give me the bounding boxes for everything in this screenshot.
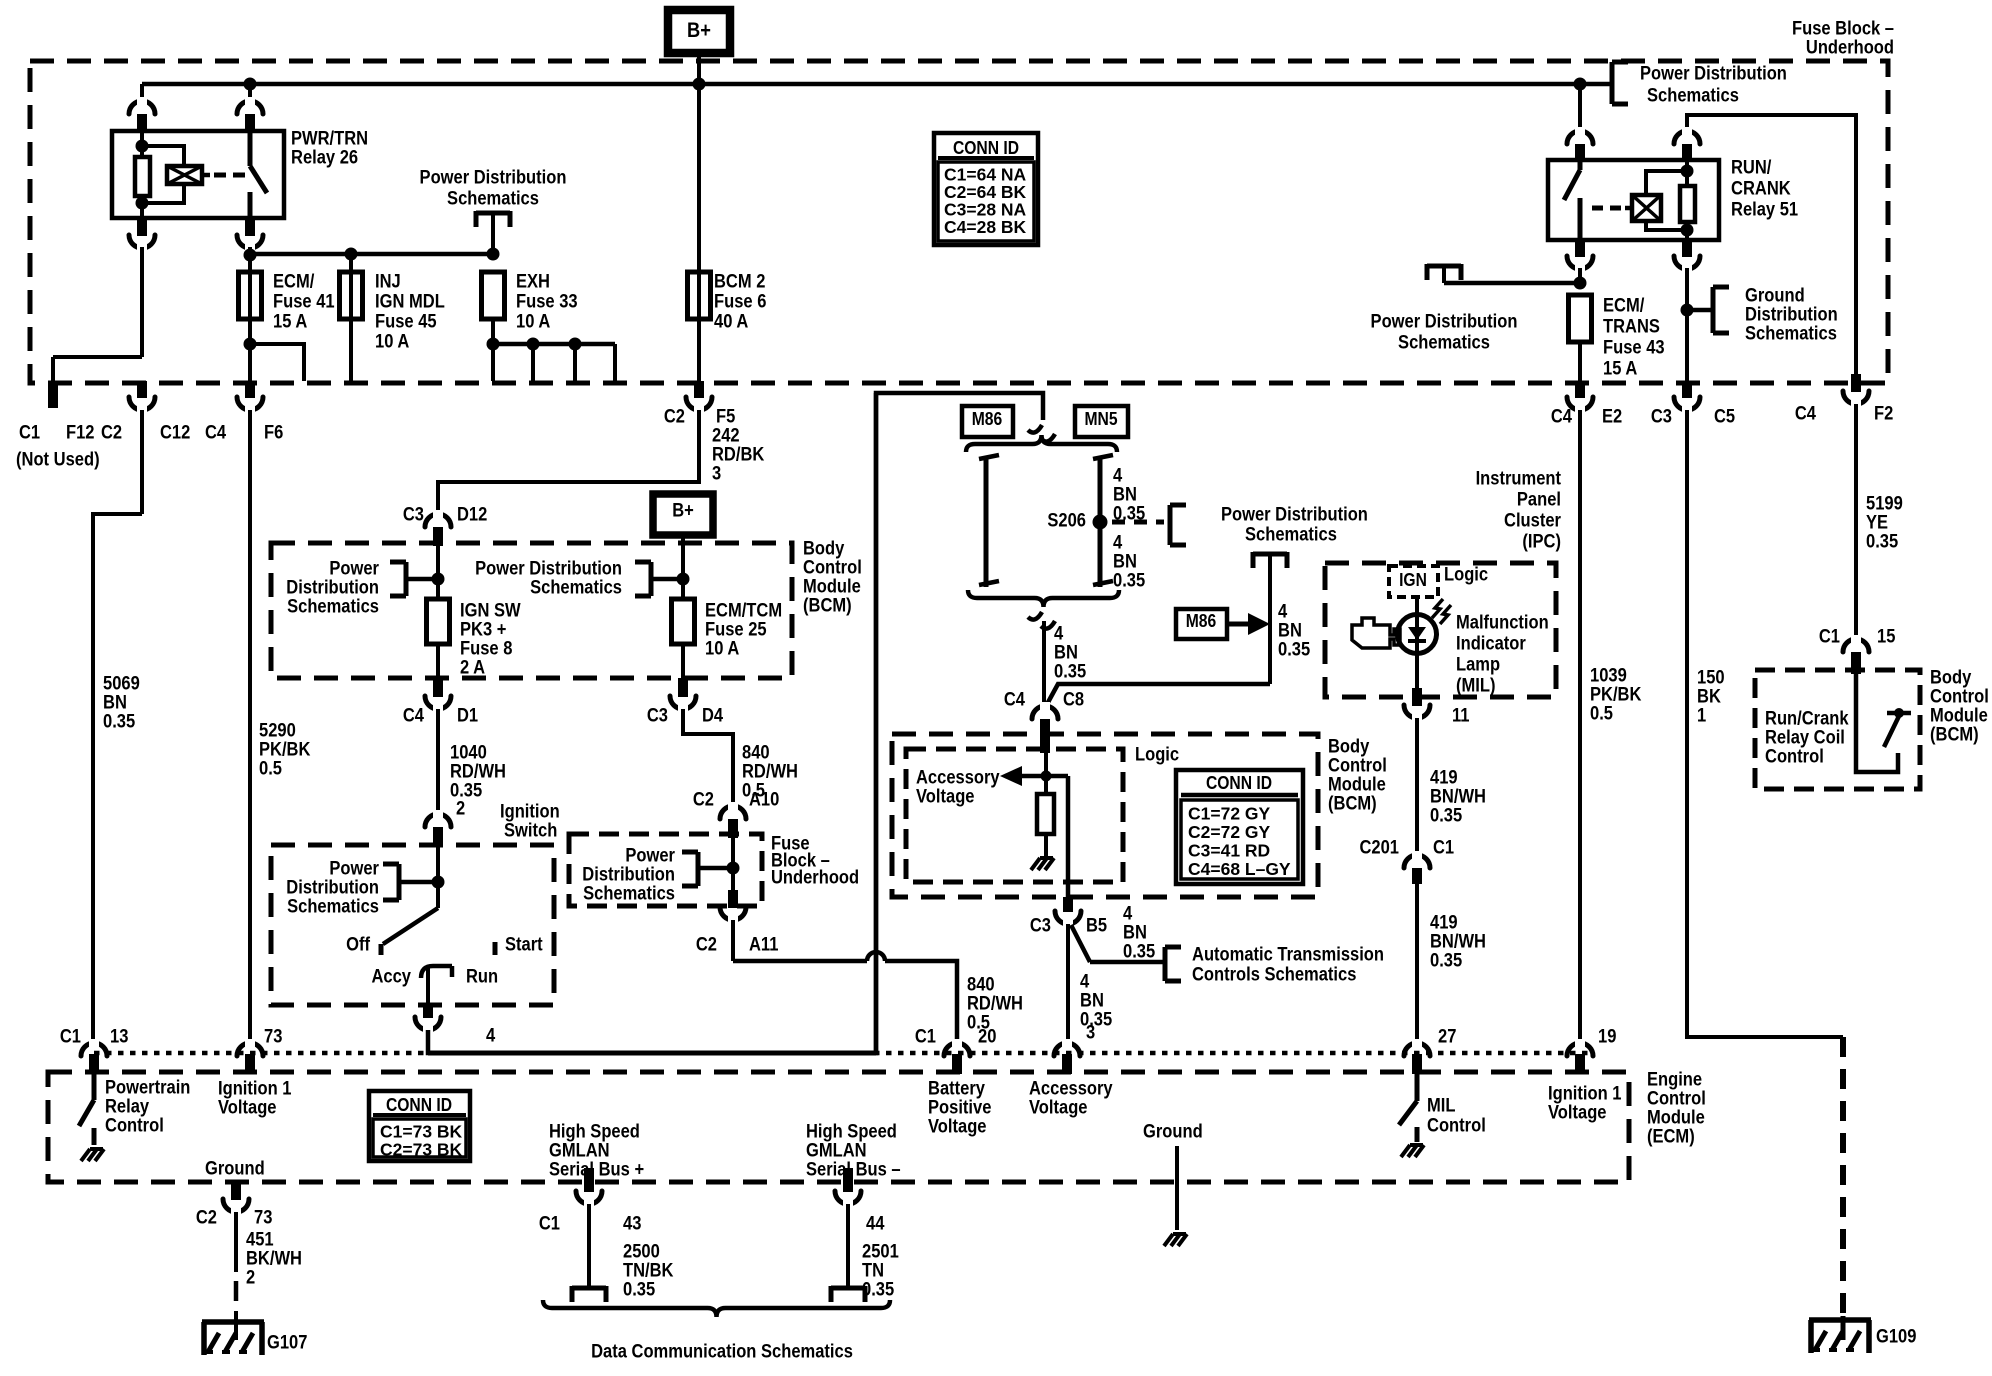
svg-text:Control: Control xyxy=(1647,1089,1706,1110)
svg-text:BK/WH: BK/WH xyxy=(246,1249,302,1270)
svg-text:ECM/: ECM/ xyxy=(273,272,315,293)
svg-text:73: 73 xyxy=(264,1027,282,1048)
svg-text:2 A: 2 A xyxy=(460,658,485,679)
svg-text:IGN SW: IGN SW xyxy=(460,601,521,622)
svg-text:IGN: IGN xyxy=(1399,570,1427,590)
svg-text:C4: C4 xyxy=(1004,690,1025,711)
svg-text:Schematics: Schematics xyxy=(287,897,379,918)
svg-text:Instrument: Instrument xyxy=(1476,469,1562,490)
svg-text:4: 4 xyxy=(1278,602,1288,623)
svg-text:E2: E2 xyxy=(1602,407,1622,428)
svg-text:Relay 51: Relay 51 xyxy=(1731,200,1798,221)
svg-text:840: 840 xyxy=(742,743,770,764)
svg-text:M86: M86 xyxy=(1186,611,1217,631)
svg-text:73: 73 xyxy=(254,1208,272,1229)
svg-text:Panel: Panel xyxy=(1517,490,1561,511)
svg-text:BK: BK xyxy=(1697,687,1721,708)
svg-text:F2: F2 xyxy=(1874,404,1893,425)
svg-text:0.35: 0.35 xyxy=(623,1280,656,1301)
svg-text:4: 4 xyxy=(486,1026,496,1047)
svg-text:5290: 5290 xyxy=(259,721,296,742)
svg-text:0.35: 0.35 xyxy=(1430,806,1463,827)
svg-text:BN: BN xyxy=(1278,621,1302,642)
svg-text:Fuse 8: Fuse 8 xyxy=(460,639,512,660)
svg-text:F5: F5 xyxy=(716,407,736,428)
svg-text:C2=73 BK: C2=73 BK xyxy=(380,1140,463,1160)
svg-text:C1=73 BK: C1=73 BK xyxy=(380,1122,463,1142)
svg-text:BN/WH: BN/WH xyxy=(1430,932,1486,953)
svg-text:D12: D12 xyxy=(457,505,487,526)
svg-text:INJ: INJ xyxy=(375,272,401,293)
svg-text:150: 150 xyxy=(1697,668,1725,689)
svg-text:Body: Body xyxy=(803,539,845,560)
svg-text:Lamp: Lamp xyxy=(1456,655,1500,676)
svg-text:IGN MDL: IGN MDL xyxy=(375,292,445,313)
svg-text:C1=72 GY: C1=72 GY xyxy=(1188,804,1271,824)
svg-text:Distribution: Distribution xyxy=(286,578,379,599)
svg-text:27: 27 xyxy=(1438,1027,1456,1048)
svg-text:Powertrain: Powertrain xyxy=(105,1078,190,1099)
svg-text:Ignition: Ignition xyxy=(500,802,560,823)
svg-text:B5: B5 xyxy=(1086,916,1107,937)
svg-text:Indicator: Indicator xyxy=(1456,634,1526,655)
svg-text:Off: Off xyxy=(346,935,370,956)
svg-text:Schematics: Schematics xyxy=(530,578,622,599)
svg-text:C2=72 GY: C2=72 GY xyxy=(1188,822,1271,842)
svg-text:11: 11 xyxy=(1452,706,1470,727)
svg-text:Power Distribution: Power Distribution xyxy=(475,559,622,580)
svg-text:Serial Bus +: Serial Bus + xyxy=(549,1160,644,1181)
svg-text:Power Distribution: Power Distribution xyxy=(1640,64,1787,85)
svg-text:1040: 1040 xyxy=(450,743,487,764)
svg-text:Switch: Switch xyxy=(504,821,557,842)
svg-text:Controls Schematics: Controls Schematics xyxy=(1192,965,1356,986)
svg-text:0.35: 0.35 xyxy=(1123,942,1156,963)
svg-text:Module: Module xyxy=(1930,706,1988,727)
svg-text:13: 13 xyxy=(110,1027,128,1048)
svg-text:1: 1 xyxy=(1697,706,1707,727)
svg-text:242: 242 xyxy=(712,426,740,447)
svg-text:BN: BN xyxy=(103,693,127,714)
svg-text:Schematics: Schematics xyxy=(583,884,675,905)
svg-text:0.5: 0.5 xyxy=(259,759,282,780)
svg-text:3: 3 xyxy=(712,464,721,485)
svg-text:C2: C2 xyxy=(664,407,685,428)
svg-text:Positive: Positive xyxy=(928,1098,991,1119)
svg-text:C12: C12 xyxy=(160,423,190,444)
svg-text:Engine: Engine xyxy=(1647,1070,1702,1091)
svg-text:20: 20 xyxy=(978,1027,996,1048)
svg-text:Ground: Ground xyxy=(205,1159,265,1180)
svg-text:Automatic Transmission: Automatic Transmission xyxy=(1192,945,1384,966)
svg-text:Relay 26: Relay 26 xyxy=(291,148,358,169)
svg-text:RD/BK: RD/BK xyxy=(712,445,765,466)
svg-text:F12: F12 xyxy=(66,423,95,444)
svg-text:Cluster: Cluster xyxy=(1504,511,1562,532)
svg-text:GMLAN: GMLAN xyxy=(806,1141,867,1162)
svg-text:C2: C2 xyxy=(101,423,122,444)
svg-text:CONN ID: CONN ID xyxy=(953,138,1019,158)
svg-text:Relay Coil: Relay Coil xyxy=(1765,728,1845,749)
svg-text:C3: C3 xyxy=(403,505,424,526)
svg-text:TN: TN xyxy=(862,1261,884,1282)
svg-text:RD/WH: RD/WH xyxy=(742,762,798,783)
svg-text:C1: C1 xyxy=(1433,838,1454,859)
svg-text:RD/WH: RD/WH xyxy=(450,762,506,783)
svg-text:Fuse 25: Fuse 25 xyxy=(705,620,767,641)
svg-text:(BCM): (BCM) xyxy=(803,596,852,617)
svg-text:Run: Run xyxy=(466,967,498,988)
svg-text:RUN/: RUN/ xyxy=(1731,158,1772,179)
svg-text:Voltage: Voltage xyxy=(928,1117,987,1138)
svg-text:40 A: 40 A xyxy=(714,312,749,333)
svg-text:C2: C2 xyxy=(693,790,714,811)
svg-text:BCM 2: BCM 2 xyxy=(714,272,765,293)
svg-text:Ground: Ground xyxy=(1143,1122,1203,1143)
svg-text:S206: S206 xyxy=(1047,511,1086,532)
svg-text:CRANK: CRANK xyxy=(1731,179,1791,200)
svg-text:Module: Module xyxy=(803,577,861,598)
svg-text:Schematics: Schematics xyxy=(287,597,379,618)
svg-text:0.35: 0.35 xyxy=(862,1280,895,1301)
svg-text:Accy: Accy xyxy=(372,967,412,988)
svg-text:Module: Module xyxy=(1328,775,1386,796)
svg-text:4: 4 xyxy=(1123,904,1133,925)
svg-text:2501: 2501 xyxy=(862,1242,899,1263)
svg-text:PK3 +: PK3 + xyxy=(460,620,506,641)
svg-text:Schematics: Schematics xyxy=(1245,525,1337,546)
svg-text:PK/BK: PK/BK xyxy=(259,740,311,761)
svg-text:Underhood: Underhood xyxy=(1806,38,1894,59)
svg-text:Fuse 33: Fuse 33 xyxy=(516,292,578,313)
svg-text:Control: Control xyxy=(803,558,862,579)
svg-text:G107: G107 xyxy=(267,1333,307,1354)
svg-text:TN/BK: TN/BK xyxy=(623,1261,674,1282)
svg-text:Accessory: Accessory xyxy=(916,768,1000,789)
svg-text:Body: Body xyxy=(1930,668,1972,689)
svg-text:5199: 5199 xyxy=(1866,494,1903,515)
svg-text:1039: 1039 xyxy=(1590,666,1627,687)
svg-text:Body: Body xyxy=(1328,737,1370,758)
svg-text:A10: A10 xyxy=(749,790,779,811)
svg-text:Control: Control xyxy=(1427,1116,1486,1137)
svg-text:0.35: 0.35 xyxy=(1278,640,1311,661)
svg-text:High Speed: High Speed xyxy=(806,1122,897,1143)
svg-text:CONN ID: CONN ID xyxy=(1206,773,1272,793)
svg-text:C1: C1 xyxy=(539,1214,560,1235)
svg-text:Schematics: Schematics xyxy=(1745,324,1837,345)
svg-text:C3: C3 xyxy=(647,706,668,727)
svg-text:(MIL): (MIL) xyxy=(1456,676,1496,697)
svg-text:Module: Module xyxy=(1647,1108,1705,1129)
svg-text:Fuse 41: Fuse 41 xyxy=(273,292,335,313)
svg-text:0.35: 0.35 xyxy=(103,712,136,733)
svg-text:C2: C2 xyxy=(696,935,717,956)
svg-text:Underhood: Underhood xyxy=(771,868,859,889)
svg-text:C1: C1 xyxy=(1819,627,1840,648)
svg-text:C8: C8 xyxy=(1063,690,1084,711)
svg-text:Ground: Ground xyxy=(1745,286,1805,307)
svg-text:BN: BN xyxy=(1054,643,1078,664)
svg-text:Control: Control xyxy=(1930,687,1989,708)
svg-text:ECM/TCM: ECM/TCM xyxy=(705,601,782,622)
svg-text:(ECM): (ECM) xyxy=(1647,1127,1695,1148)
svg-text:C4=28 BK: C4=28 BK xyxy=(944,217,1027,237)
svg-text:C4: C4 xyxy=(1551,407,1572,428)
svg-text:BN/WH: BN/WH xyxy=(1430,787,1486,808)
svg-text:M86: M86 xyxy=(972,409,1003,429)
svg-text:B+: B+ xyxy=(672,501,694,522)
svg-text:19: 19 xyxy=(1598,1027,1616,1048)
svg-text:B+: B+ xyxy=(687,19,711,42)
svg-text:419: 419 xyxy=(1430,768,1458,789)
svg-text:10 A: 10 A xyxy=(705,639,740,660)
svg-text:44: 44 xyxy=(866,1214,885,1235)
svg-text:5069: 5069 xyxy=(103,674,140,695)
svg-text:4: 4 xyxy=(1054,624,1064,645)
svg-text:A11: A11 xyxy=(749,935,779,956)
svg-text:C1: C1 xyxy=(915,1027,936,1048)
svg-text:Control: Control xyxy=(1765,747,1824,768)
svg-text:Data Communication Schematics: Data Communication Schematics xyxy=(591,1342,853,1363)
svg-text:C4: C4 xyxy=(403,706,424,727)
svg-text:Malfunction: Malfunction xyxy=(1456,613,1549,634)
svg-text:Fuse 45: Fuse 45 xyxy=(375,312,437,333)
svg-text:Accessory: Accessory xyxy=(1029,1079,1113,1100)
svg-text:(Not Used): (Not Used) xyxy=(16,450,100,471)
svg-text:10 A: 10 A xyxy=(516,312,551,333)
svg-text:0.35: 0.35 xyxy=(1054,662,1087,683)
svg-text:419: 419 xyxy=(1430,913,1458,934)
svg-text:Control: Control xyxy=(1328,756,1387,777)
svg-text:GMLAN: GMLAN xyxy=(549,1141,610,1162)
svg-text:Ignition 1: Ignition 1 xyxy=(218,1079,292,1100)
svg-text:YE: YE xyxy=(1866,513,1888,534)
svg-text:C201: C201 xyxy=(1360,838,1400,859)
svg-text:Ignition 1: Ignition 1 xyxy=(1548,1084,1622,1105)
svg-text:C4=68 L–GY: C4=68 L–GY xyxy=(1188,859,1291,879)
svg-text:Voltage: Voltage xyxy=(218,1098,277,1119)
svg-text:CONN ID: CONN ID xyxy=(386,1095,452,1115)
svg-text:0.5: 0.5 xyxy=(1590,704,1613,725)
svg-text:MN5: MN5 xyxy=(1084,409,1117,429)
svg-text:C2: C2 xyxy=(196,1208,217,1229)
svg-text:BN: BN xyxy=(1113,552,1137,573)
svg-text:C3: C3 xyxy=(1030,916,1051,937)
svg-text:2: 2 xyxy=(456,799,465,820)
svg-text:Power: Power xyxy=(625,846,675,867)
svg-text:Distribution: Distribution xyxy=(582,865,675,886)
svg-text:0.35: 0.35 xyxy=(450,781,483,802)
svg-text:Power Distribution: Power Distribution xyxy=(1221,505,1368,526)
svg-text:Schematics: Schematics xyxy=(1398,333,1490,354)
svg-text:Power Distribution: Power Distribution xyxy=(420,168,567,189)
svg-text:PK/BK: PK/BK xyxy=(1590,685,1642,706)
svg-text:Start: Start xyxy=(505,935,543,956)
svg-text:High Speed: High Speed xyxy=(549,1122,640,1143)
svg-text:Control: Control xyxy=(105,1116,164,1137)
svg-text:4: 4 xyxy=(1113,533,1123,554)
svg-text:Power: Power xyxy=(329,559,379,580)
svg-text:ECM/: ECM/ xyxy=(1603,296,1645,317)
svg-text:F6: F6 xyxy=(264,423,283,444)
svg-text:3: 3 xyxy=(1086,1023,1095,1044)
svg-text:Power Distribution: Power Distribution xyxy=(1371,312,1518,333)
svg-text:43: 43 xyxy=(623,1214,641,1235)
svg-text:(IPC): (IPC) xyxy=(1522,532,1561,553)
svg-text:Schematics: Schematics xyxy=(1647,86,1739,107)
svg-text:BN: BN xyxy=(1113,485,1137,506)
svg-text:D1: D1 xyxy=(457,706,478,727)
svg-text:15 A: 15 A xyxy=(273,312,308,333)
svg-text:0.35: 0.35 xyxy=(1430,951,1463,972)
svg-text:Voltage: Voltage xyxy=(1548,1103,1607,1124)
svg-text:(BCM): (BCM) xyxy=(1930,725,1979,746)
svg-text:10 A: 10 A xyxy=(375,332,410,353)
svg-text:C1: C1 xyxy=(60,1027,81,1048)
svg-text:D4: D4 xyxy=(702,706,723,727)
svg-text:C1: C1 xyxy=(19,423,40,444)
svg-text:C4: C4 xyxy=(1795,404,1816,425)
svg-text:C4: C4 xyxy=(205,423,226,444)
svg-text:Voltage: Voltage xyxy=(916,787,975,808)
svg-text:Fuse Block –: Fuse Block – xyxy=(1792,19,1894,40)
svg-text:451: 451 xyxy=(246,1230,274,1251)
svg-text:Serial Bus –: Serial Bus – xyxy=(806,1160,901,1181)
svg-text:PWR/TRN: PWR/TRN xyxy=(291,129,368,150)
svg-text:MIL: MIL xyxy=(1427,1096,1456,1117)
svg-text:840: 840 xyxy=(967,975,995,996)
svg-text:Logic: Logic xyxy=(1444,565,1488,586)
svg-text:C3: C3 xyxy=(1651,407,1672,428)
svg-text:4: 4 xyxy=(1080,972,1090,993)
svg-text:Logic: Logic xyxy=(1135,745,1179,766)
svg-text:2: 2 xyxy=(246,1268,255,1289)
svg-text:2500: 2500 xyxy=(623,1242,660,1263)
svg-text:C3=41 RD: C3=41 RD xyxy=(1188,841,1270,861)
svg-text:RD/WH: RD/WH xyxy=(967,994,1023,1015)
svg-text:(BCM): (BCM) xyxy=(1328,794,1377,815)
svg-text:G109: G109 xyxy=(1876,1327,1916,1348)
svg-text:4: 4 xyxy=(1113,466,1123,487)
svg-text:TRANS: TRANS xyxy=(1603,317,1660,338)
svg-text:Relay: Relay xyxy=(105,1097,149,1118)
svg-text:C5: C5 xyxy=(1714,407,1735,428)
svg-text:Battery: Battery xyxy=(928,1079,985,1100)
svg-text:BN: BN xyxy=(1080,991,1104,1012)
svg-text:Fuse 43: Fuse 43 xyxy=(1603,338,1665,359)
svg-text:BN: BN xyxy=(1123,923,1147,944)
svg-text:Distribution: Distribution xyxy=(1745,305,1838,326)
svg-text:Run/Crank: Run/Crank xyxy=(1765,709,1849,730)
svg-text:Voltage: Voltage xyxy=(1029,1098,1088,1119)
svg-text:Distribution: Distribution xyxy=(286,878,379,899)
svg-text:Fuse 6: Fuse 6 xyxy=(714,292,766,313)
svg-text:0.35: 0.35 xyxy=(1113,571,1146,592)
svg-text:15 A: 15 A xyxy=(1603,359,1638,380)
svg-text:Schematics: Schematics xyxy=(447,189,539,210)
svg-text:0.35: 0.35 xyxy=(1866,532,1899,553)
svg-text:15: 15 xyxy=(1877,627,1896,648)
svg-text:EXH: EXH xyxy=(516,272,550,293)
svg-text:Power: Power xyxy=(329,859,379,880)
svg-text:0.35: 0.35 xyxy=(1080,1010,1113,1031)
